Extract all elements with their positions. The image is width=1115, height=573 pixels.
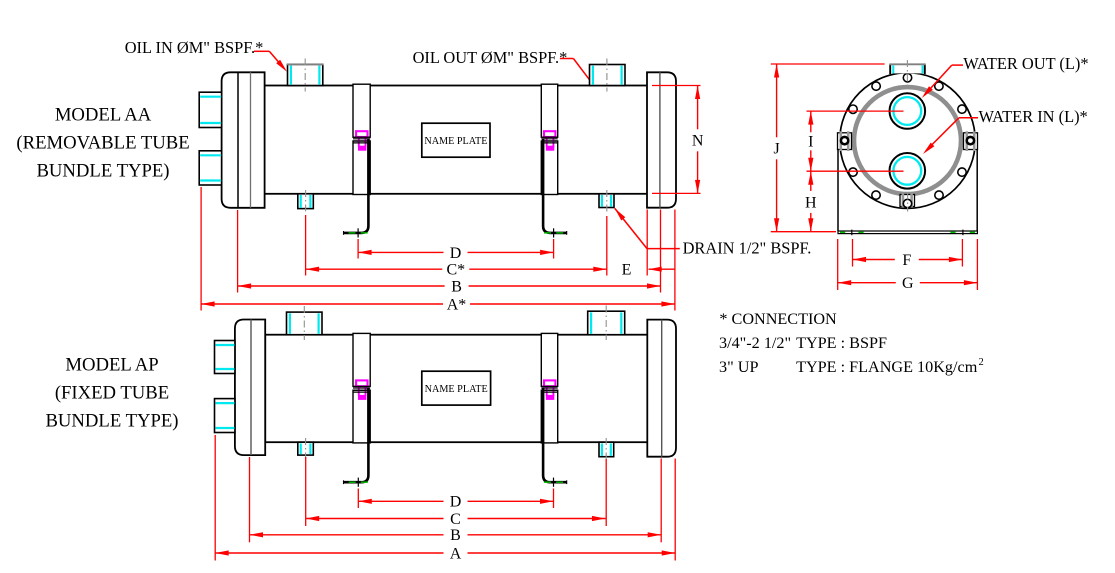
label: WATER OUT callout (963, 54, 1088, 73)
left lug bolt hole (841, 137, 848, 144)
label: OIL IN port callout text (125, 38, 264, 57)
dimension G (838, 275, 978, 292)
ext line C* right AA (606, 216, 608, 276)
label: MODEL AP title (45, 355, 178, 432)
ext line A* left AA (200, 187, 202, 311)
name plate AA (422, 123, 490, 157)
right lug end view (964, 131, 978, 151)
dimension J (773, 64, 779, 232)
ext line E right AA (646, 210, 648, 276)
svg-text:NAME PLATE: NAME PLATE (425, 384, 488, 395)
svg-text:C*: C* (446, 262, 465, 279)
svg-text:MODEL AP: MODEL AP (65, 355, 158, 376)
bottom lug end view (900, 193, 915, 207)
svg-text:C: C (450, 511, 461, 528)
shell AA (265, 86, 648, 194)
ext line B left AP (249, 457, 251, 542)
svg-text:(FIXED TUBE: (FIXED TUBE (55, 383, 169, 404)
ext line I top (807, 110, 904, 112)
svg-text:N: N (692, 133, 704, 150)
dimension I (808, 111, 813, 171)
svg-text:OIL OUT ØM" BSPF.*: OIL OUT ØM" BSPF.* (413, 48, 568, 67)
side port upper AP (215, 341, 235, 374)
right lug bolt hole (967, 137, 974, 144)
ext line N bottom AA (652, 192, 701, 194)
dimension C* AA (306, 262, 607, 279)
dimension N AA (692, 86, 704, 194)
svg-text:* CONNECTION: * CONNECTION (719, 310, 837, 328)
bracket 2 AP (541, 333, 566, 486)
ext line D right AA (553, 239, 555, 259)
left bonnet cap AA (222, 72, 265, 208)
svg-text:E: E (622, 262, 632, 279)
centerline oil-out AP (605, 306, 607, 341)
ext line J/H bottom (771, 231, 836, 233)
centerline drain-right AA (606, 190, 608, 213)
leader to oil-in port (254, 51, 287, 71)
side port upper AA (199, 92, 221, 127)
ext line G right (976, 239, 978, 290)
left lug end view (838, 131, 852, 151)
svg-text:WATER IN (L)*: WATER IN (L)* (979, 107, 1088, 126)
dimension F (853, 252, 963, 269)
svg-text:G: G (902, 275, 914, 292)
water out port circle (890, 93, 926, 129)
right cap inner line AP (661, 320, 663, 457)
leader to oil-out port (560, 59, 590, 81)
drain port left AA (298, 194, 314, 209)
label: DRAIN callout text (683, 238, 812, 257)
svg-text:TYPE : FLANGE 10Kg/cm: TYPE : FLANGE 10Kg/cm (796, 358, 978, 376)
ext line A left AP (214, 435, 216, 561)
svg-text:2: 2 (979, 357, 984, 368)
right cap AP (647, 320, 676, 457)
ext line D left AA (357, 239, 359, 259)
centerline oil-in AP (303, 306, 305, 340)
bracket 1 AA (344, 84, 371, 237)
right cap inner line AA (659, 72, 661, 207)
gasket ring (854, 87, 961, 194)
svg-text:TYPE : BSPF: TYPE : BSPF (796, 334, 887, 352)
ext line D right AP (553, 489, 555, 509)
right cap AA (647, 72, 676, 207)
centerline oil-in AA (304, 59, 306, 92)
drain port left AP (298, 442, 314, 455)
saddle base tick left (851, 230, 853, 236)
oil-in top port AA (287, 64, 324, 85)
ext line G left (837, 239, 839, 290)
label: MODEL AA title (16, 105, 189, 182)
dimension C AP (306, 511, 606, 528)
dimension A AP (215, 545, 675, 562)
svg-text:3/4"-2 1/2": 3/4"-2 1/2" (719, 334, 791, 352)
centerline top port end view (906, 60, 908, 89)
svg-text:I: I (808, 134, 813, 151)
bracket 1 AP (344, 333, 371, 486)
svg-text:3" UP: 3" UP (719, 358, 758, 376)
top vent port end view (889, 64, 925, 74)
oil-out top port AA (590, 65, 626, 86)
note: flange line (719, 357, 984, 376)
tube sheet line AP (250, 320, 252, 456)
note: connection heading (719, 310, 837, 328)
svg-text:A: A (450, 545, 462, 562)
left cap AP (235, 320, 265, 456)
svg-text:BUNDLE TYPE): BUNDLE TYPE) (36, 161, 169, 182)
note: bspf line (719, 334, 887, 352)
ext line A right AP (674, 459, 676, 561)
saddle bracket end view (838, 147, 977, 234)
svg-text:MODEL AA: MODEL AA (55, 105, 152, 126)
dimension E AA (622, 262, 675, 279)
ext line B left AA (237, 210, 239, 293)
side port lower AP (215, 399, 235, 433)
centerline bottom end view (907, 193, 909, 212)
svg-text:J: J (773, 141, 779, 158)
bracket 2 AA (541, 84, 566, 237)
svg-text:A*: A* (447, 296, 467, 313)
leader to water out port (922, 65, 963, 98)
svg-text:D: D (450, 245, 462, 262)
ext line C left AP (305, 457, 307, 526)
dimension A* AA (201, 296, 675, 313)
svg-text:WATER OUT (L)*: WATER OUT (L)* (963, 54, 1088, 73)
water in port circle (890, 153, 926, 189)
svg-text:H: H (805, 194, 817, 211)
ext line B right AA (660, 210, 662, 293)
centerline drain-left AA (305, 190, 307, 214)
dimension B AP (250, 527, 662, 544)
svg-text:B: B (450, 527, 461, 544)
ext line B right AP (660, 459, 662, 543)
ext line N top AA (652, 85, 701, 87)
svg-text:(REMOVABLE TUBE: (REMOVABLE TUBE (16, 133, 189, 154)
saddle base tick right (962, 230, 964, 236)
leader to water in port (923, 118, 978, 154)
ext line I bottom (807, 170, 904, 172)
svg-text:DRAIN 1/2" BSPF.: DRAIN 1/2" BSPF. (683, 238, 812, 257)
leader to drain port AA (615, 208, 680, 248)
drain port right AA (599, 194, 614, 208)
ext line A* right AA (674, 210, 676, 311)
bolt holes (12x) (840, 74, 974, 208)
shell AP (265, 335, 648, 443)
oil-out top port AP (588, 311, 625, 335)
svg-text:NAME PLATE: NAME PLATE (424, 136, 487, 147)
dimension D AA (358, 245, 553, 262)
side port lower AA (199, 151, 221, 185)
ext line J top (771, 63, 885, 65)
dimension B AA (238, 278, 661, 295)
svg-text:BUNDLE TYPE): BUNDLE TYPE) (45, 411, 178, 432)
svg-text:B: B (451, 278, 462, 295)
ext line D left AP (357, 489, 359, 509)
svg-text:F: F (902, 252, 911, 269)
svg-text:OIL IN ØM" BSPF.*: OIL IN ØM" BSPF.* (125, 38, 264, 57)
label: WATER IN callout (979, 107, 1088, 126)
bonnet joint line AA (237, 72, 239, 208)
centerline oil-out AA (606, 59, 608, 92)
name plate AP (422, 371, 491, 405)
label: OIL OUT port callout text (413, 48, 568, 67)
centerline drain-right AP (605, 438, 607, 462)
ext line F right (961, 239, 963, 267)
ext line C* left AA (305, 215, 307, 276)
flange outer circle (840, 73, 976, 209)
drain port right AP (599, 442, 614, 457)
oil-in top port AP (287, 312, 323, 335)
ext line F left (852, 239, 854, 267)
ext line C right AP (605, 459, 607, 526)
saddle base green dashes (840, 231, 975, 233)
centerline drain-left AP (305, 438, 307, 461)
bonnet flange line AA (250, 72, 252, 208)
dimension H (805, 171, 817, 232)
svg-text:D: D (450, 494, 462, 511)
dimension D AP (358, 494, 553, 511)
